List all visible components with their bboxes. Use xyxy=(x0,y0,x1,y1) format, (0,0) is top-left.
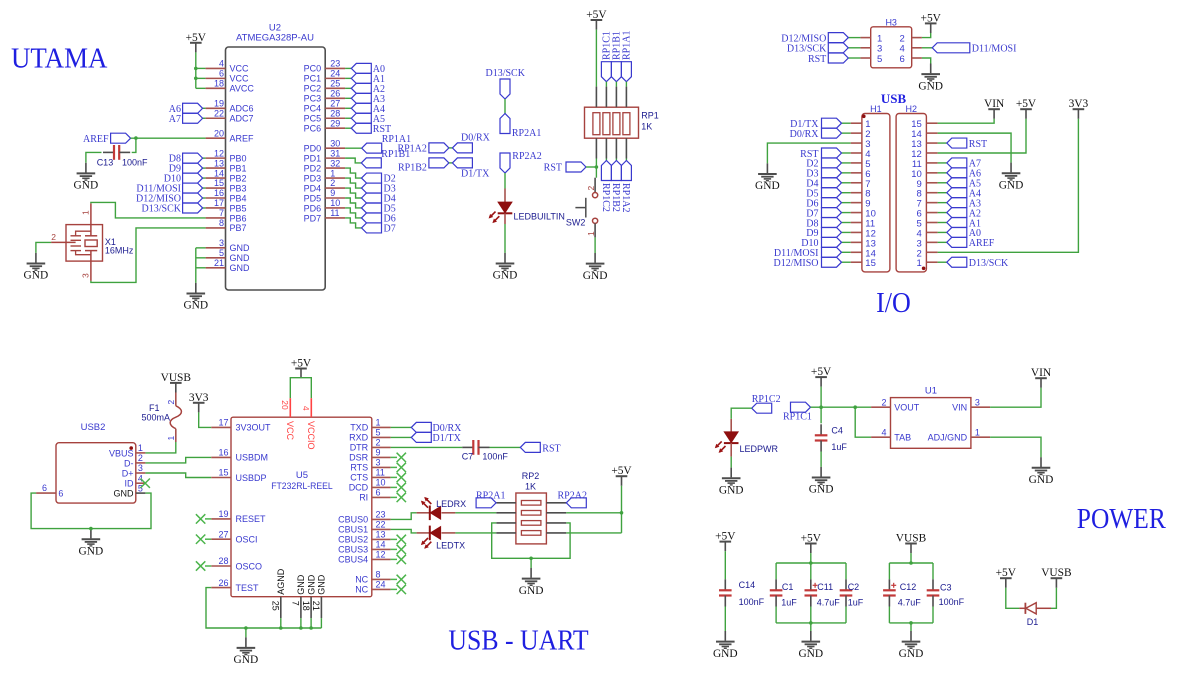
svg-text:LEDRX: LEDRX xyxy=(436,499,466,509)
wire +5V to RP2 lanes xyxy=(566,486,621,533)
wire U1 ADJ/GND to ground xyxy=(990,437,1041,457)
svg-text:VIN: VIN xyxy=(952,403,967,413)
svg-text:24: 24 xyxy=(376,580,386,590)
svg-text:GND: GND xyxy=(899,648,924,660)
svg-text:C12: C12 xyxy=(900,582,917,592)
svg-text:GND: GND xyxy=(719,484,744,496)
svg-text:C2: C2 xyxy=(848,582,860,592)
no-connect X (U5 DSR pin 9) xyxy=(391,453,406,462)
svg-text:D13/SCK: D13/SCK xyxy=(486,68,526,79)
wire RP2A2 to LEDBUILTIN xyxy=(504,173,506,189)
svg-text:25: 25 xyxy=(330,79,340,89)
net flag RST (C7) xyxy=(520,442,560,454)
no-connect X (U5 RTS pin 3) xyxy=(391,463,406,472)
svg-text:1: 1 xyxy=(138,443,143,453)
svg-text:GND: GND xyxy=(230,243,251,253)
svg-text:1K: 1K xyxy=(641,121,652,131)
svg-text:USBDP: USBDP xyxy=(236,473,267,483)
svg-text:VUSB: VUSB xyxy=(896,533,927,545)
capacitor C12 4.7uF xyxy=(883,579,921,607)
wire AREF branch down to C13 xyxy=(132,138,136,152)
ground (H2 pin14) xyxy=(999,163,1024,192)
H1 pins xyxy=(851,119,876,269)
U1 pins xyxy=(871,397,990,442)
svg-text:C7: C7 xyxy=(462,451,474,461)
net flag D0/RX (U5 TXD) xyxy=(391,422,463,434)
ground (X1) xyxy=(24,253,49,282)
wire D13/SCK to RP2A1 xyxy=(504,99,506,114)
svg-text:D1/TX: D1/TX xyxy=(433,433,462,444)
svg-text:UTAMA: UTAMA xyxy=(11,44,108,75)
net flag D7 xyxy=(362,223,396,235)
ground (LEDBUILTIN) xyxy=(493,253,518,282)
LED LEDPWR xyxy=(715,419,779,457)
net flag A0 (PC0) xyxy=(345,63,385,75)
wire C4 to ground xyxy=(820,452,822,467)
wire H2 pin2 to 3V3 xyxy=(938,119,1079,252)
net flag RP1A1 xyxy=(362,134,411,153)
svg-text:GND: GND xyxy=(296,574,306,595)
no-connect X (U5 left pin at y=518.9) xyxy=(196,514,211,523)
svg-text:4: 4 xyxy=(301,406,311,411)
svg-text:2: 2 xyxy=(166,400,176,405)
net flag D5 (H1 pin 8) xyxy=(806,188,850,200)
svg-text:26: 26 xyxy=(218,578,228,588)
wire PD7 to D7 xyxy=(345,218,361,228)
U5 right pins xyxy=(338,418,390,595)
net flag A7 (H2) xyxy=(938,158,981,170)
svg-text:D0/RX: D0/RX xyxy=(790,129,820,140)
svg-text:CTS: CTS xyxy=(350,473,368,483)
svg-text:22: 22 xyxy=(376,520,386,530)
svg-text:25: 25 xyxy=(271,601,281,611)
svg-text:1: 1 xyxy=(586,231,596,236)
wire PD5 to D5 xyxy=(345,198,361,208)
net flag A1 (PC1) xyxy=(345,73,385,85)
net flag RST (H2 pin13) xyxy=(938,138,988,150)
wire +5V to U2 VCC pins xyxy=(196,52,206,88)
net flag A6 xyxy=(169,103,206,115)
svg-text:+5V: +5V xyxy=(586,9,607,21)
power VUSB (F1) xyxy=(161,372,192,393)
svg-text:PC6: PC6 xyxy=(304,124,322,134)
wire CBUS0 to LEDRX xyxy=(391,513,417,520)
svg-text:6: 6 xyxy=(900,54,905,65)
svg-text:TAB: TAB xyxy=(894,433,911,443)
svg-text:RXD: RXD xyxy=(349,433,369,443)
svg-text:1: 1 xyxy=(917,258,922,269)
svg-text:PB6: PB6 xyxy=(230,213,247,223)
ground (RP2) xyxy=(519,568,544,597)
power 3V3 (H2) xyxy=(1069,98,1089,119)
wire D1 to VUSB xyxy=(1051,588,1056,609)
svg-text:7: 7 xyxy=(291,601,301,606)
net flag D8 xyxy=(169,153,206,165)
net flag D2 (H1 pin 5) xyxy=(806,158,850,170)
svg-text:OSCO: OSCO xyxy=(236,561,263,571)
svg-text:RP2: RP2 xyxy=(522,471,540,481)
svg-text:GND: GND xyxy=(583,270,608,282)
svg-text:VOUT: VOUT xyxy=(894,403,920,413)
wire PD0 to RP1A1 xyxy=(345,147,362,149)
svg-text:RP1B2: RP1B2 xyxy=(610,183,621,212)
wire CBUS1 to LEDTX xyxy=(391,529,417,533)
power +5V (RP2) xyxy=(611,465,632,486)
svg-text:H2: H2 xyxy=(906,104,918,114)
no-connect X (U5 RI pin 6) xyxy=(391,493,406,502)
power VIN (H2) xyxy=(984,98,1004,119)
regulator U1 body xyxy=(891,386,971,449)
ground (U1) xyxy=(1029,457,1054,486)
svg-text:RI: RI xyxy=(359,493,368,503)
net flag RST (H3) xyxy=(808,53,860,65)
power +5V (D1) xyxy=(996,567,1017,588)
svg-text:GND: GND xyxy=(183,300,208,312)
svg-text:3: 3 xyxy=(376,458,381,468)
ground (H1 pin3) xyxy=(755,163,780,192)
net flag RP2A1 (RP2 left) xyxy=(476,490,505,508)
svg-text:500mA: 500mA xyxy=(141,413,170,423)
svg-text:PD1: PD1 xyxy=(304,153,322,163)
svg-text:USB2: USB2 xyxy=(81,422,106,433)
svg-text:CBUS1: CBUS1 xyxy=(338,525,368,535)
svg-text:17: 17 xyxy=(218,418,228,428)
power VUSB (D1) xyxy=(1041,567,1072,588)
wire PD2 to D2 xyxy=(345,168,361,178)
svg-text:D13/SCK: D13/SCK xyxy=(142,204,182,215)
capacitor C4 1uF xyxy=(815,424,848,452)
net flag A5 (PC5) xyxy=(345,113,385,125)
svg-text:TEST: TEST xyxy=(236,583,260,593)
net flag D13/SCK (to LED) xyxy=(486,68,526,99)
net flag D11/MOSI (H1 pin 14) xyxy=(774,247,851,259)
svg-text:10: 10 xyxy=(330,198,340,208)
svg-text:FT232RL-REEL: FT232RL-REEL xyxy=(271,481,333,492)
svg-text:U1: U1 xyxy=(925,386,937,397)
net flag RP2A2 (RP2 right) xyxy=(558,490,587,508)
capacitor C1 1uF xyxy=(770,579,798,607)
net flag RP1A1 (above RP1) xyxy=(621,31,632,87)
svg-text:RESET: RESET xyxy=(236,514,267,524)
wire X1 pin2 to ground xyxy=(36,242,51,253)
no-connect X (U5 CBUS2 pin 13) xyxy=(391,535,406,544)
svg-text:C4: C4 xyxy=(831,425,843,435)
LED LEDTX xyxy=(417,526,466,551)
svg-text:AREF: AREF xyxy=(83,134,109,145)
svg-text:ADC7: ADC7 xyxy=(230,114,254,124)
svg-text:13: 13 xyxy=(214,158,224,168)
power +5V (C14) xyxy=(715,531,736,552)
svg-text:7: 7 xyxy=(219,208,224,218)
header H3 body xyxy=(871,17,912,68)
no-connect X (U5 NC pin 24) xyxy=(391,585,406,594)
net flag D9 (H1 pin 12) xyxy=(806,227,850,239)
wire 3V3 to U5 3V3OUT xyxy=(199,412,212,427)
power +5V (RP1) xyxy=(586,9,607,30)
capacitor C14 100nF xyxy=(719,579,765,607)
svg-text:3V3: 3V3 xyxy=(1069,98,1089,110)
svg-text:6: 6 xyxy=(376,488,381,498)
net flag D1/TX (H1 pin 1) xyxy=(790,118,851,130)
wire lane1 RP1 to SW2 xyxy=(595,159,597,178)
net flag A0 (H2) xyxy=(938,227,981,239)
wire D+ to U5 USBDP xyxy=(145,473,211,478)
net flag D9 xyxy=(169,163,206,175)
svg-text:11: 11 xyxy=(330,208,339,218)
svg-text:RP1A1: RP1A1 xyxy=(622,31,633,60)
U5 top pins VCC VCCIO xyxy=(280,398,316,449)
wire H1 pin3 to ground xyxy=(767,143,850,163)
resistor pack RP1 1K xyxy=(585,87,659,159)
svg-text:21: 21 xyxy=(214,258,224,268)
capacitor C2 1uF xyxy=(840,579,864,607)
U5 left pins xyxy=(211,418,271,593)
svg-text:C1: C1 xyxy=(782,582,794,592)
svg-text:1uF: 1uF xyxy=(831,442,847,452)
svg-text:PC0: PC0 xyxy=(304,64,322,74)
svg-text:+5V: +5V xyxy=(801,533,822,545)
svg-text:13: 13 xyxy=(376,530,386,540)
svg-text:20: 20 xyxy=(214,128,224,138)
wire X1 pin1 to PB6 xyxy=(91,202,206,218)
svg-text:RST: RST xyxy=(542,443,560,454)
svg-text:100nF: 100nF xyxy=(939,597,965,607)
svg-text:GND: GND xyxy=(306,574,316,595)
svg-text:PC3: PC3 xyxy=(304,94,322,104)
ground (USB2) xyxy=(79,529,104,558)
svg-text:31: 31 xyxy=(330,148,340,158)
svg-text:GND: GND xyxy=(493,270,518,282)
svg-text:5: 5 xyxy=(376,428,381,438)
svg-text:VCCIO: VCCIO xyxy=(306,421,316,450)
svg-text:RP2A2: RP2A2 xyxy=(558,490,587,501)
svg-text:PD4: PD4 xyxy=(304,183,322,193)
net flag RP2A1 (upper) xyxy=(500,114,541,139)
svg-text:4.7uF: 4.7uF xyxy=(817,598,841,608)
svg-text:23: 23 xyxy=(376,510,386,520)
svg-text:100nF: 100nF xyxy=(739,597,765,607)
svg-text:100nF: 100nF xyxy=(122,157,148,167)
svg-text:2: 2 xyxy=(881,397,886,407)
svg-text:RST: RST xyxy=(808,54,826,65)
net flag D0/RX (pair) xyxy=(452,132,490,153)
net flag D3 xyxy=(362,183,396,195)
svg-text:AVCC: AVCC xyxy=(230,84,255,94)
power +5V (U5) xyxy=(291,358,312,379)
svg-text:VIN: VIN xyxy=(984,98,1004,110)
svg-text:D+: D+ xyxy=(122,468,134,478)
net flag RP1B1 xyxy=(361,149,410,168)
svg-text:DTR: DTR xyxy=(350,443,369,453)
svg-text:H3: H3 xyxy=(885,17,897,27)
wire RP1C1 to +5V rail xyxy=(811,406,822,408)
svg-text:32: 32 xyxy=(330,158,340,168)
svg-text:C13: C13 xyxy=(97,157,114,167)
svg-text:PB1: PB1 xyxy=(230,163,247,173)
svg-text:GND: GND xyxy=(798,648,823,660)
power +5V (H2) xyxy=(1016,98,1037,119)
wire RP1C2 to LEDPWR xyxy=(731,408,752,419)
svg-text:RP1C1: RP1C1 xyxy=(783,411,812,422)
svg-text:1: 1 xyxy=(80,210,90,215)
net flag RST (H1 pin 4) xyxy=(800,148,851,160)
svg-text:18: 18 xyxy=(214,79,224,89)
net flag RP1B2 (below RP1) xyxy=(610,159,621,212)
ground (cap bank 1) xyxy=(798,631,823,660)
svg-text:U5: U5 xyxy=(296,470,308,481)
svg-text:4: 4 xyxy=(219,59,224,69)
IC U5 FT232RL-REEL body xyxy=(231,417,372,597)
power VIN (U1) xyxy=(1031,367,1051,388)
wire +5V to U5 VCC pins xyxy=(290,378,311,399)
svg-text:4: 4 xyxy=(138,473,143,483)
svg-text:14: 14 xyxy=(214,168,224,178)
wire PD3 to D3 xyxy=(345,178,361,188)
net flag D13/SCK (H3) xyxy=(787,43,861,55)
svg-text:ID: ID xyxy=(125,479,135,489)
U5 bottom pins AGND GND xyxy=(271,568,327,618)
no-connect X (U5 CTS pin 11) xyxy=(391,473,406,482)
net flag A4 (PC4) xyxy=(345,103,385,115)
svg-text:VCC: VCC xyxy=(230,74,250,84)
svg-text:3: 3 xyxy=(975,397,980,407)
wire ground tap (USB2) xyxy=(90,528,92,530)
svg-text:15: 15 xyxy=(218,468,228,478)
svg-text:D-: D- xyxy=(124,458,134,468)
net flag A3 (PC3) xyxy=(345,93,385,105)
svg-text:A7: A7 xyxy=(169,114,181,125)
svg-text:CBUS3: CBUS3 xyxy=(338,545,368,555)
svg-text:D11/MOSI: D11/MOSI xyxy=(972,44,1017,55)
net flag D1/TX (pair) xyxy=(452,158,490,179)
ground (C13) xyxy=(74,163,99,192)
ground (U5) xyxy=(234,637,259,666)
svg-text:PB7: PB7 xyxy=(230,223,247,233)
svg-text:PB2: PB2 xyxy=(230,173,247,183)
svg-text:9: 9 xyxy=(376,448,381,458)
svg-text:CBUS2: CBUS2 xyxy=(338,535,368,545)
wire LEDTX to RP2 xyxy=(455,532,496,534)
svg-text:+5V: +5V xyxy=(811,366,832,378)
svg-text:15: 15 xyxy=(214,178,224,188)
svg-text:+5V: +5V xyxy=(291,358,312,370)
svg-text:GND: GND xyxy=(114,489,135,499)
svg-text:LEDBUILTIN: LEDBUILTIN xyxy=(514,212,565,222)
power +5V (H3) xyxy=(921,12,942,33)
net flag D4 xyxy=(362,193,396,205)
net flag RP1A2 (below RP1) xyxy=(620,159,631,213)
svg-text:AREF: AREF xyxy=(230,133,255,143)
svg-text:27: 27 xyxy=(330,98,340,108)
net flag D2 xyxy=(362,173,396,185)
wire USB2 GND loop xyxy=(31,493,151,528)
svg-text:VIN: VIN xyxy=(1031,367,1051,379)
wire U2 GND pins rail xyxy=(196,248,206,283)
svg-text:C3: C3 xyxy=(940,583,952,593)
net flag A6 (H2) xyxy=(938,168,981,180)
net flag D13/SCK xyxy=(142,203,206,215)
wire RP1B2 to D1/TX xyxy=(449,162,453,164)
wire SW2 to ground xyxy=(594,237,596,253)
svg-text:RP1A2: RP1A2 xyxy=(397,143,426,154)
wire H2 pin15 to VIN xyxy=(938,119,995,123)
svg-text:DSR: DSR xyxy=(349,453,369,463)
svg-text:+5V: +5V xyxy=(1016,98,1037,110)
svg-text:3: 3 xyxy=(219,238,224,248)
LED LEDRX xyxy=(417,497,467,520)
header H1 body xyxy=(862,104,890,272)
net flag AREF xyxy=(83,133,131,145)
svg-text:VCC: VCC xyxy=(230,64,250,74)
power 3V3 (U5) xyxy=(189,392,209,413)
svg-text:14: 14 xyxy=(376,540,386,550)
svg-text:PC1: PC1 xyxy=(304,74,322,84)
net flag A2 (H2) xyxy=(938,208,981,220)
svg-text:11: 11 xyxy=(376,468,385,478)
svg-text:GND: GND xyxy=(809,484,834,496)
svg-text:2: 2 xyxy=(586,186,596,191)
svg-text:+5V: +5V xyxy=(715,531,736,543)
svg-text:17: 17 xyxy=(214,198,224,208)
wire LEDBUILTIN to ground xyxy=(504,224,506,253)
svg-text:GND: GND xyxy=(918,80,943,92)
ground (C4) xyxy=(809,467,834,496)
svg-text:ADC6: ADC6 xyxy=(230,104,254,114)
svg-text:10: 10 xyxy=(376,478,386,488)
power VUSB (cap bank 2) xyxy=(896,533,927,554)
net flag A3 (H2) xyxy=(938,198,981,210)
net flag RST (at SW2) xyxy=(544,162,586,174)
net flag D12/MISO (H1 pin 15) xyxy=(773,257,850,269)
net flag A2 (PC2) xyxy=(345,83,385,95)
svg-text:26: 26 xyxy=(330,89,340,99)
wire RP2 lane3 to ground loop xyxy=(492,523,570,568)
net flag D12/MISO (H3) xyxy=(781,33,860,45)
svg-text:GND: GND xyxy=(79,545,104,557)
net flag D4 (H1 pin 7) xyxy=(806,178,850,190)
net flag D13/SCK (H2 pin1) xyxy=(938,257,1009,269)
svg-text:GND: GND xyxy=(230,263,251,273)
svg-text:PC5: PC5 xyxy=(304,114,322,124)
svg-text:RP1A2: RP1A2 xyxy=(620,183,631,212)
svg-text:USB: USB xyxy=(881,91,907,106)
svg-text:RTS: RTS xyxy=(350,463,368,473)
svg-text:SW2: SW2 xyxy=(566,218,586,228)
net flag A4 (H2) xyxy=(938,188,981,200)
svg-text:GND: GND xyxy=(1029,474,1054,486)
svg-text:NC: NC xyxy=(355,575,368,585)
ground (H3) xyxy=(918,64,943,93)
svg-text:8: 8 xyxy=(219,218,224,228)
svg-text:16MHz: 16MHz xyxy=(105,245,134,255)
svg-text:28: 28 xyxy=(330,108,340,118)
svg-text:28: 28 xyxy=(218,556,228,566)
wire +5V to U1 VOUT xyxy=(821,387,871,438)
switch SW2 xyxy=(566,178,598,238)
svg-text:12: 12 xyxy=(214,148,224,158)
svg-text:1: 1 xyxy=(166,436,176,441)
net flag D12/MISO xyxy=(136,193,206,205)
svg-text:TXD: TXD xyxy=(350,423,369,433)
H2 pins xyxy=(911,119,937,269)
no-connect X (U5 DCD pin 10) xyxy=(391,483,406,492)
svg-text:4: 4 xyxy=(881,427,886,437)
svg-text:3: 3 xyxy=(138,463,143,473)
net flag D8 (H1 pin 11) xyxy=(806,218,850,230)
svg-text:C11: C11 xyxy=(817,582,833,592)
wire PD6 to D6 xyxy=(345,208,361,218)
svg-text:1uF: 1uF xyxy=(781,598,797,608)
